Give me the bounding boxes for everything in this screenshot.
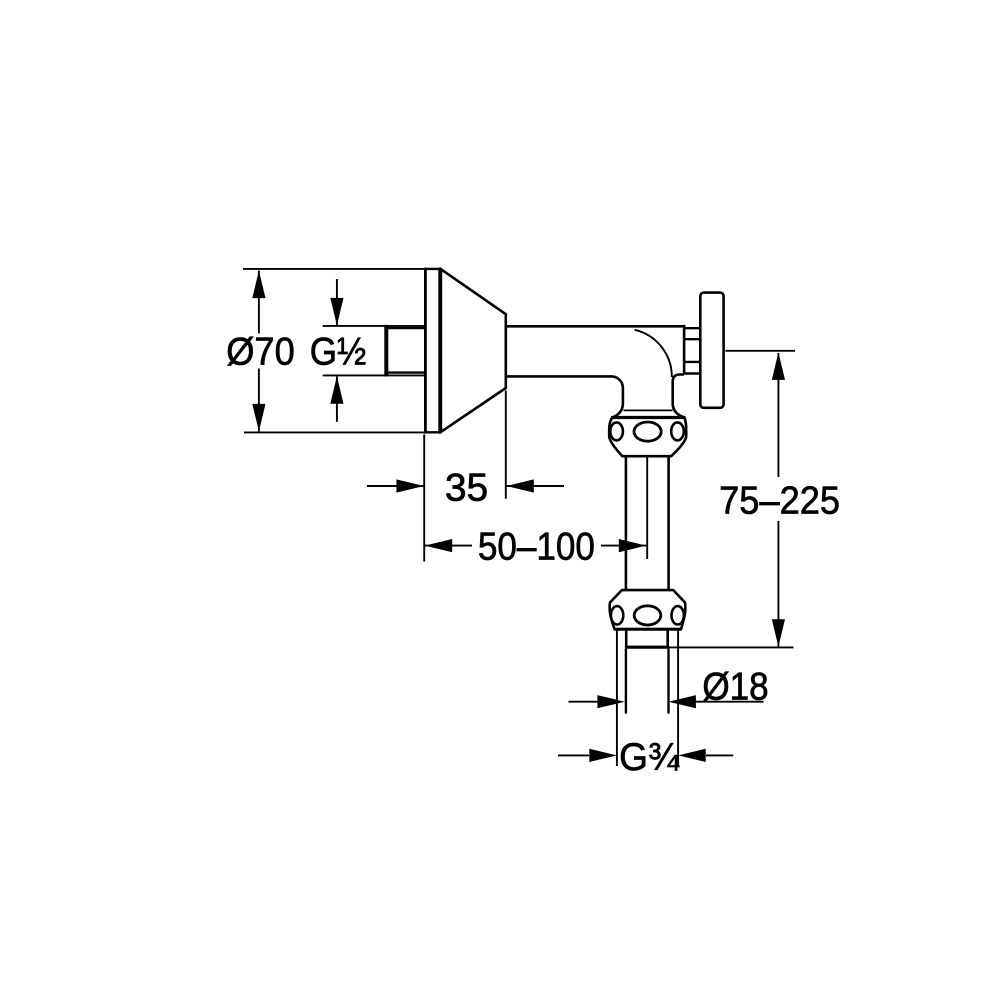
svg-text:50–100: 50–100 [478,524,595,568]
svg-text:G½: G½ [310,329,367,373]
svg-text:G¾: G¾ [619,736,680,779]
svg-text:75–225: 75–225 [719,478,840,521]
svg-text:35: 35 [445,467,488,510]
svg-text:Ø70: Ø70 [226,329,295,372]
svg-text:Ø18: Ø18 [702,664,768,708]
